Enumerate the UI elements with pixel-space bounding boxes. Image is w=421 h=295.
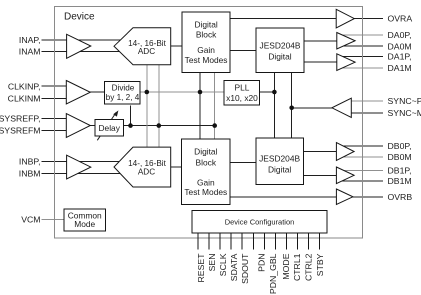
- svg-text:Test Modes: Test Modes: [185, 55, 228, 65]
- wire JESD A to DA0 buffer: [304, 40, 337, 42]
- wire SYSREFM input: [42, 129, 67, 131]
- svg-text:Gain: Gain: [197, 45, 215, 55]
- svg-text:OVRA: OVRA: [388, 14, 413, 24]
- DB1 buffer: [336, 167, 354, 184]
- wire clock vertical to digital blocks: [199, 73, 201, 140]
- wire INBM input: [42, 173, 129, 175]
- junction sysref digital: [212, 123, 217, 128]
- common mode box: [64, 209, 105, 231]
- delay adjustment arrow: [97, 110, 118, 140]
- svg-text:INAP,: INAP,: [19, 35, 41, 45]
- DA1 buffer: [337, 54, 355, 71]
- wire ADC B to digital block: [171, 166, 182, 168]
- wire JESD B to DB0 buffer: [303, 151, 337, 153]
- wire divider to delay line drop: [130, 105, 132, 125]
- wire digital block A to JESD A: [230, 50, 256, 52]
- wire sysref vertical to ADCs: [158, 65, 160, 147]
- pin CTRL1 line: [297, 233, 299, 249]
- digital block B: [182, 139, 231, 204]
- wire clock vertical to ADCs: [146, 65, 148, 147]
- wire INBP input: [42, 161, 129, 163]
- wire DB0P output: [340, 145, 383, 147]
- wire DA1M output: [340, 67, 383, 69]
- wire OVRA: [230, 18, 383, 20]
- svg-text:Mode: Mode: [74, 219, 95, 229]
- wire VCM: [42, 219, 65, 221]
- wire JESD B to DB1 buffer: [303, 174, 337, 176]
- svg-text:DB1M: DB1M: [388, 176, 412, 186]
- sysref buffer: [66, 114, 90, 138]
- JESD204B block B: [256, 138, 304, 184]
- svg-text:x10, x20: x10, x20: [226, 93, 258, 103]
- wire DA0M output: [340, 45, 383, 47]
- divider box: [104, 81, 140, 104]
- wire DA1P output: [340, 56, 383, 58]
- wire SYNC horizontal: [292, 107, 334, 109]
- wire DB1M output: [340, 180, 383, 182]
- junction sysref A: [157, 123, 162, 128]
- svg-text:DB0M: DB0M: [388, 152, 412, 162]
- wire sysref buffer to delay: [88, 125, 95, 127]
- pin MODE line: [286, 233, 288, 249]
- svg-text:SYNC~P,: SYNC~P,: [388, 96, 421, 106]
- svg-text:Digital: Digital: [194, 146, 217, 156]
- wire clock buffer to divider: [88, 91, 104, 93]
- wire DB1P output: [340, 170, 383, 172]
- pin 6 line: [252, 233, 254, 249]
- svg-text:CTRL2: CTRL2: [304, 253, 314, 281]
- svg-text:INBM: INBM: [19, 169, 41, 179]
- svg-text:OVRB: OVRB: [388, 192, 413, 202]
- PLL box: [224, 80, 260, 104]
- svg-text:DB1P,: DB1P,: [388, 166, 412, 176]
- wire SYNCP input: [351, 100, 383, 102]
- svg-text:DA0M: DA0M: [388, 41, 412, 51]
- pin CTRL2 line: [308, 233, 310, 249]
- pin SDOUT line: [241, 233, 243, 249]
- wire sysref vertical to digital blocks: [214, 73, 216, 140]
- SYNC buffer: [332, 98, 351, 117]
- svg-text:DA0P,: DA0P,: [388, 30, 412, 40]
- svg-text:SEN: SEN: [207, 254, 217, 272]
- svg-text:Digital: Digital: [268, 52, 291, 62]
- svg-text:Test Modes: Test Modes: [184, 187, 227, 197]
- svg-text:INAM: INAM: [19, 46, 41, 56]
- pin SEN line: [208, 233, 210, 249]
- svg-text:SCLK: SCLK: [218, 253, 228, 276]
- ADC B: [114, 147, 171, 187]
- svg-text:PDN: PDN: [257, 254, 267, 272]
- svg-text:INBP,: INBP,: [19, 157, 41, 167]
- svg-text:SYNC~M: SYNC~M: [388, 108, 421, 118]
- wire SYNC vertical to JESD blocks: [291, 73, 293, 139]
- device configuration box: [192, 210, 327, 233]
- svg-text:JESD204B: JESD204B: [259, 154, 300, 164]
- svg-text:Delay: Delay: [98, 123, 120, 133]
- wire OVRB: [230, 196, 383, 198]
- junction SYNC: [289, 106, 294, 111]
- svg-text:MODE: MODE: [281, 253, 291, 279]
- ADC A: [114, 28, 171, 65]
- svg-text:ADC: ADC: [138, 47, 155, 56]
- amplifier B: [67, 155, 91, 179]
- OVRB buffer: [336, 189, 353, 205]
- wire DA0P output: [340, 34, 383, 36]
- svg-text:JESD204B: JESD204B: [260, 41, 301, 51]
- wire divider output to PLL: [140, 91, 224, 93]
- svg-text:RESET: RESET: [196, 253, 206, 283]
- svg-text:Device Configuration: Device Configuration: [225, 217, 295, 226]
- wire digital block B to JESD B: [230, 162, 256, 164]
- junction PLL clock: [272, 90, 277, 95]
- svg-text:PLL: PLL: [235, 83, 250, 93]
- pin RESET line: [197, 233, 199, 249]
- wire INAP input: [42, 39, 129, 41]
- pin STBY line: [319, 233, 321, 249]
- wire JESD A to DA1 buffer: [304, 61, 337, 63]
- wire INAM input: [42, 50, 129, 52]
- pin SCLK line: [219, 233, 221, 249]
- wire delay output: [124, 125, 215, 127]
- junction divider clock A: [145, 90, 150, 95]
- JESD204B block A: [256, 28, 304, 73]
- svg-text:Digital: Digital: [194, 19, 217, 29]
- svg-text:ADC: ADC: [138, 168, 155, 177]
- svg-text:DA1M: DA1M: [388, 63, 412, 73]
- junction divider clock digital: [198, 90, 203, 95]
- wire SYSREFP input: [42, 118, 67, 120]
- pin PDN line: [263, 233, 265, 249]
- wire DB0M output: [340, 156, 383, 158]
- svg-text:PDN_GBL: PDN_GBL: [268, 253, 278, 294]
- svg-text:DB0P,: DB0P,: [388, 141, 412, 151]
- DB0 buffer: [336, 143, 354, 161]
- svg-text:DA1P,: DA1P,: [388, 52, 412, 62]
- wire CLKINM input: [42, 97, 67, 99]
- pin SDATA line: [230, 233, 232, 249]
- svg-text:VCM: VCM: [21, 215, 40, 225]
- wire ADC A to digital block: [171, 45, 183, 47]
- svg-text:by 1, 2, 4: by 1, 2, 4: [106, 93, 140, 102]
- svg-text:STBY: STBY: [315, 253, 325, 276]
- amplifier A: [67, 34, 91, 58]
- svg-text:CLKINM: CLKINM: [8, 93, 41, 103]
- OVRA buffer: [336, 9, 354, 28]
- svg-text:Block: Block: [196, 157, 217, 167]
- pin PDN_GBL line: [274, 233, 276, 249]
- svg-text:SYSREFM: SYSREFM: [0, 125, 41, 135]
- svg-text:CTRL1: CTRL1: [292, 253, 302, 281]
- digital block A: [182, 12, 230, 73]
- junction divider delay: [128, 123, 133, 128]
- svg-text:Block: Block: [196, 29, 217, 39]
- wire PLL output: [260, 91, 275, 93]
- device boundary: [55, 7, 363, 239]
- svg-text:Divide: Divide: [112, 84, 135, 93]
- clock buffer: [66, 81, 90, 105]
- wire PLL vertical to JESD blocks: [273, 73, 275, 139]
- wire CLKINP input: [42, 85, 67, 87]
- delay box: [95, 120, 124, 136]
- svg-text:SDATA: SDATA: [229, 253, 239, 281]
- svg-text:CLKINP,: CLKINP,: [8, 81, 41, 91]
- svg-text:SYSREFP,: SYSREFP,: [0, 114, 41, 124]
- svg-text:Digital: Digital: [268, 165, 291, 175]
- DA0 buffer: [337, 33, 355, 50]
- wire SYNCM input: [351, 112, 383, 114]
- svg-text:Device: Device: [64, 12, 95, 23]
- svg-text:SDOUT: SDOUT: [240, 253, 250, 284]
